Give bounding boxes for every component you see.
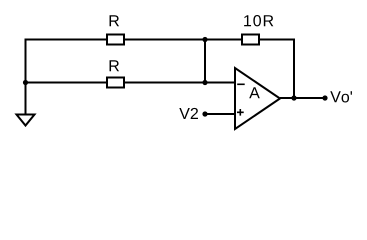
wire: V2 lead to non-inverting input (205, 113, 235, 115)
label R (R1) (110, 15, 120, 26)
label V2 (179, 108, 198, 119)
op-amp A (235, 68, 280, 129)
wire: top rail left segment to R1 (25, 39, 108, 41)
wire: top rail from 10R to right corner, down to output (258, 40, 294, 99)
op-amp plus sign (237, 109, 244, 116)
wire: middle rail left segment to R2 (26, 82, 108, 84)
resistor R1 (107, 35, 124, 45)
node: junction output / feedback (291, 95, 296, 100)
node: junction left vertical / middle rail (23, 80, 28, 85)
resistor R2 (107, 78, 124, 88)
label A (249, 87, 260, 98)
op-amp minus sign (237, 83, 245, 85)
wire: left vertical from top rail down to ground (25, 39, 27, 115)
node: Vo' terminal (322, 95, 327, 100)
wire: vertical link between top rail and inverting input rail (204, 40, 206, 83)
wire: op-amp output to Vo' terminal (280, 97, 325, 99)
node: junction middle rail / link (202, 80, 207, 85)
resistor 10R (242, 35, 259, 45)
label R (R2) (110, 60, 120, 71)
wire: top rail between R1 and 10R (124, 39, 243, 41)
wire: middle rail from R2 to op-amp inverting input (124, 82, 235, 84)
ground (17, 115, 35, 126)
node: V2 terminal (202, 111, 207, 116)
label 10R (244, 15, 273, 26)
label Vo' (330, 91, 352, 102)
node: junction top rail / link (202, 37, 207, 42)
